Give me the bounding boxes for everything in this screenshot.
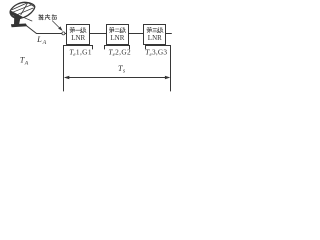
svg-text:3,G3: 3,G3 — [152, 48, 167, 57]
block: 第二级 LNR (second-stage LNR) — [107, 25, 129, 45]
bracket over stage 1 label — [64, 46, 93, 50]
label Ts (system noise temperature) — [118, 64, 126, 75]
antenna (satellite dish) — [10, 2, 35, 27]
label Te1,G1 — [69, 47, 92, 57]
svg-text:A: A — [24, 61, 29, 67]
label Te2,G2 — [108, 48, 131, 58]
block: 第三级 LNR (third-stage LNR) — [144, 25, 166, 45]
block: 第一级 LNR (first-stage LNR) — [67, 25, 90, 45]
svg-text:A: A — [42, 40, 47, 46]
extension line left (below reference node) — [63, 46, 65, 92]
svg-text:2,G2: 2,G2 — [115, 48, 131, 57]
label 参考点 with pointer arrow — [39, 14, 63, 31]
label Te3,G3 — [145, 48, 167, 58]
wire: LNR3 output stub — [166, 33, 172, 35]
svg-text:1,G1: 1,G1 — [76, 47, 92, 56]
wire: LNR2 to LNR3 — [129, 33, 144, 35]
dimension arrow Ts (double-headed) — [64, 76, 170, 80]
label TA (antenna noise temperature) — [20, 56, 29, 67]
svg-text:LNR: LNR — [110, 34, 124, 42]
bracket over stage 2 label — [105, 46, 130, 50]
svg-text:LNR: LNR — [71, 34, 85, 42]
wire: antenna feed line to reference node — [26, 25, 67, 33]
extension line right (system output) — [170, 46, 172, 92]
bracket over stage 3 label — [146, 46, 171, 50]
wire: LNR1 to LNR2 — [90, 33, 107, 35]
node: reference point (参考点) circle — [62, 32, 65, 35]
svg-text:L: L — [36, 35, 42, 44]
svg-text:s: s — [123, 68, 126, 74]
svg-text:LNR: LNR — [148, 34, 162, 42]
label LA (feeder loss) — [36, 35, 47, 46]
